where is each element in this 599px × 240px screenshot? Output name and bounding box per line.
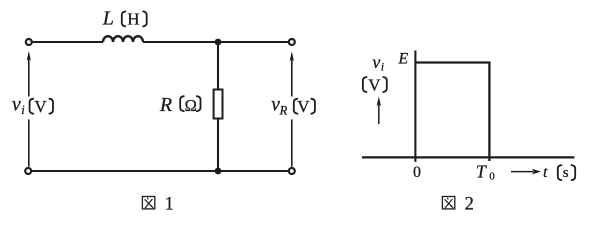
svg-text:V: V (34, 97, 47, 116)
wire resistor to bottom junction (217, 119, 219, 172)
svg-text:t: t (543, 164, 548, 181)
pulse waveform (415, 63, 489, 162)
svg-text:H: H (127, 9, 139, 28)
wire top-right segment (143, 41, 288, 43)
t axis baseline (362, 156, 574, 158)
arrow vR (right measurement arrow) (291, 54, 293, 167)
node junction bottom (215, 168, 222, 175)
svg-text:2: 2 (465, 195, 474, 215)
terminal bottom-right (289, 168, 295, 174)
terminal top-right (289, 39, 295, 45)
v axis (414, 51, 416, 162)
arrow vi (left measurement arrow) (28, 54, 30, 167)
node junction top (215, 39, 222, 46)
svg-text:R: R (159, 94, 172, 116)
terminal bottom-left (25, 168, 31, 174)
arrow t axis label (511, 171, 534, 173)
svg-text:v: v (12, 95, 21, 116)
svg-text:E: E (397, 50, 408, 67)
svg-text:i: i (21, 103, 25, 117)
inductor L (103, 36, 143, 42)
svg-text:Ω: Ω (185, 96, 197, 115)
svg-text:v: v (372, 52, 380, 72)
terminal top-left (26, 39, 32, 45)
svg-text:R: R (279, 104, 288, 118)
caption zu 1 (kanji drawn) (142, 197, 154, 209)
wire junction to resistor (217, 42, 219, 90)
svg-text:V: V (297, 97, 310, 116)
svg-text:i: i (381, 62, 384, 74)
caption zu 2 (kanji drawn) (442, 197, 454, 209)
svg-text:0: 0 (413, 164, 421, 181)
svg-text:1: 1 (165, 195, 174, 215)
svg-text:s: s (563, 165, 569, 181)
resistor R (214, 90, 223, 119)
svg-text:T: T (476, 161, 488, 181)
wire top-left segment (33, 41, 103, 43)
arrow up (graph) (378, 99, 380, 124)
svg-text:L: L (102, 8, 114, 30)
wire bottom (32, 170, 288, 172)
svg-text:0: 0 (489, 171, 495, 183)
svg-text:V: V (368, 76, 381, 95)
label [V] (363, 77, 367, 92)
